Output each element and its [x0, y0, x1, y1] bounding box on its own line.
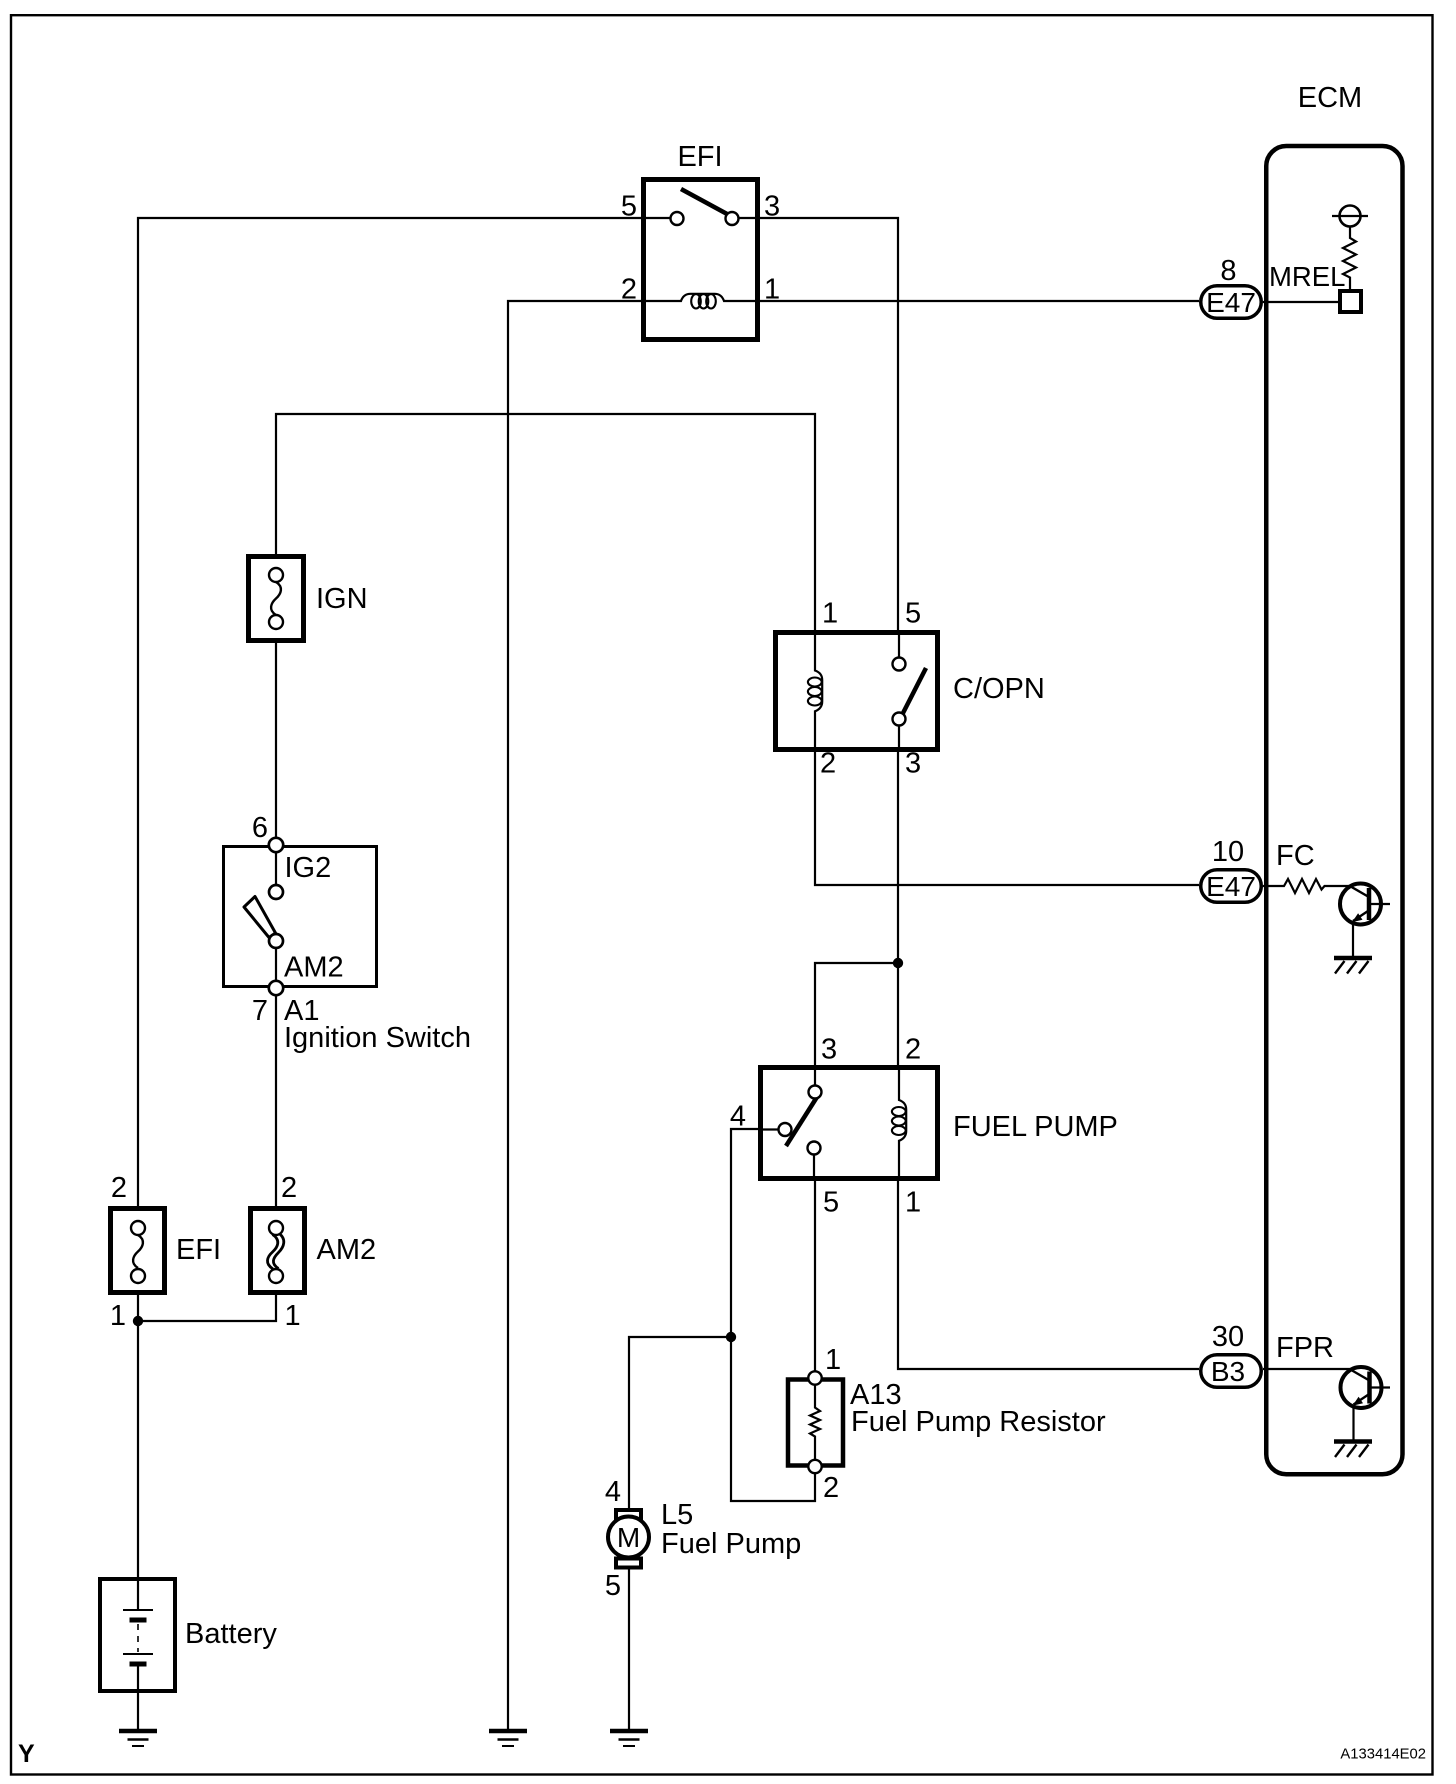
svg-text:EFI: EFI: [176, 1234, 221, 1266]
relay C/OPN switch: [898, 630, 900, 752]
svg-text:4: 4: [605, 1476, 621, 1508]
wire: EFI fuse pin2 to EFI relay pin 5: [138, 218, 644, 1206]
relay FUEL PUMP switch: [758, 1065, 815, 1181]
svg-text:1: 1: [825, 1344, 841, 1376]
svg-text:L5: L5: [661, 1499, 693, 1531]
svg-text:1: 1: [764, 274, 780, 306]
svg-text:7: 7: [252, 995, 268, 1027]
svg-text:Ignition Switch: Ignition Switch: [284, 1022, 471, 1054]
MREL terminal square: [1340, 291, 1361, 312]
svg-text:IGN: IGN: [316, 583, 368, 615]
relay EFI coil: [646, 294, 756, 301]
ignition switch AM2 contact: [269, 934, 283, 948]
svg-text:A133414E02: A133414E02: [1340, 1747, 1426, 1763]
FPR driver transistor: [1341, 1367, 1391, 1440]
wire: IGN fuse bottom to ignition switch pin 6: [275, 643, 277, 838]
wire: E47-8 to MREL terminal square: [1263, 206, 1368, 313]
svg-text:30: 30: [1212, 1321, 1244, 1353]
junction node at fuel pump branch: [726, 1332, 736, 1342]
fusible link AM2 box: [251, 1172, 377, 1332]
svg-text:5: 5: [621, 191, 637, 223]
svg-text:2: 2: [905, 1034, 921, 1066]
wire: battery negative to ground: [137, 1693, 139, 1730]
svg-text:C/OPN: C/OPN: [953, 673, 1045, 705]
svg-text:5: 5: [905, 598, 921, 630]
svg-text:AM2: AM2: [284, 952, 344, 984]
ignition switch box: [224, 812, 472, 1054]
svg-text:2: 2: [820, 748, 836, 780]
svg-text:5: 5: [823, 1187, 839, 1219]
wire: branch junction to FUEL PUMP relay pin 3: [815, 963, 898, 1065]
svg-text:2: 2: [111, 1172, 127, 1204]
svg-text:3: 3: [764, 191, 780, 223]
svg-text:E47: E47: [1206, 287, 1256, 318]
svg-text:1: 1: [285, 1300, 301, 1332]
wire: FUEL PUMP relay pin 5 to resistor A13 pin 1: [814, 1181, 816, 1371]
relay EFI switch contacts: [646, 217, 756, 219]
wire: C/OPN relay pin 2 to ECM E47-10 FC: [815, 752, 1199, 885]
fuse IGN box: [249, 557, 368, 641]
svg-text:M: M: [617, 1522, 640, 1553]
ECM box: [1266, 82, 1402, 1474]
fuel pump resistor A13 box: [788, 1344, 1106, 1504]
ignition switch lever: [244, 897, 276, 938]
junction node at EFI/AM2 fuses: [133, 1316, 143, 1326]
ignition switch pin 7 contact: [275, 948, 277, 981]
svg-text:Y: Y: [18, 1740, 35, 1768]
wire: ignition switch pin 7 to AM2 fuse pin 2: [275, 995, 277, 1206]
FPR transistor ground: [1334, 1442, 1372, 1458]
svg-text:4: 4: [730, 1101, 746, 1133]
svg-text:5: 5: [605, 1570, 621, 1602]
wire: FUEL PUMP relay pin 1 to ECM B3-30 FPR: [898, 1181, 1199, 1369]
FC driver transistor: [1340, 884, 1390, 957]
connector E47 oval (MREL): [1201, 255, 1346, 318]
ground below battery: [119, 1731, 157, 1746]
svg-text:AM2: AM2: [317, 1234, 377, 1266]
MREL power source symbol: [1340, 206, 1361, 227]
svg-text:6: 6: [252, 812, 268, 844]
svg-text:MREL: MREL: [1269, 261, 1345, 292]
svg-text:3: 3: [821, 1034, 837, 1066]
svg-text:1: 1: [110, 1300, 126, 1332]
connector B3 oval (FPR): [1201, 1321, 1334, 1387]
battery cells: [137, 1577, 139, 1610]
svg-text:Fuel Pump: Fuel Pump: [661, 1528, 801, 1560]
FC base resistor: [1263, 879, 1351, 893]
ground from EFI relay pin 2: [489, 1731, 527, 1746]
FC transistor ground: [1334, 958, 1372, 974]
svg-text:8: 8: [1220, 255, 1236, 287]
relay C/OPN box: [776, 598, 1045, 780]
svg-text:ECM: ECM: [1298, 82, 1362, 114]
svg-text:Fuel Pump Resistor: Fuel Pump Resistor: [851, 1406, 1106, 1438]
ground below fuel pump motor: [610, 1731, 648, 1746]
MREL pull-up resistor: [1343, 227, 1356, 290]
svg-text:IG2: IG2: [285, 852, 332, 884]
ignition switch pin 6 contact: [275, 852, 277, 885]
wire: IGN fuse pin top to C/OPN relay pin 1: [276, 414, 815, 630]
svg-text:FPR: FPR: [1276, 1332, 1334, 1364]
wire: EFI fuse pin 1 to battery, junction to AM2 fuse pin 1: [138, 1295, 276, 1577]
svg-text:3: 3: [905, 748, 921, 780]
wire: junction to fuel pump motor pin 4: [629, 1337, 731, 1510]
svg-text:EFI: EFI: [677, 141, 722, 173]
svg-text:1: 1: [905, 1187, 921, 1219]
relay FUEL PUMP box: [730, 1034, 1118, 1219]
svg-text:2: 2: [621, 274, 637, 306]
svg-text:10: 10: [1212, 836, 1244, 868]
svg-text:FUEL PUMP: FUEL PUMP: [953, 1111, 1118, 1143]
relay C/OPN coil: [815, 630, 822, 752]
connector E47 oval (FC): [1201, 836, 1315, 902]
fusible link AM2 element: [275, 1221, 277, 1283]
wire: EFI relay pin 1 to ECM E47-8 MREL: [758, 300, 1199, 302]
wire: FUEL PUMP relay pin 4 down to resistor pin 2: [731, 1129, 815, 1501]
svg-text:B3: B3: [1211, 1356, 1245, 1387]
svg-text:E47: E47: [1206, 871, 1256, 902]
svg-text:2: 2: [823, 1472, 839, 1504]
fuel pump motor L5 symbol: [605, 1476, 801, 1602]
svg-text:1: 1: [822, 598, 838, 630]
svg-text:2: 2: [281, 1172, 297, 1204]
relay EFI box: [621, 141, 780, 340]
wire: C/OPN relay pin 3 to FUEL PUMP relay pin 2: [897, 752, 899, 1065]
wire: EFI relay pin 3 to C/OPN relay pin 5: [758, 218, 898, 630]
fuse EFI element: [137, 1221, 139, 1283]
junction node at C/OPN pin3 branch: [893, 958, 903, 968]
svg-text:FC: FC: [1276, 840, 1315, 872]
svg-text:Battery: Battery: [185, 1618, 277, 1650]
ignition switch IG2 contact: [269, 885, 283, 899]
wire: fuel pump motor pin 5 to ground: [628, 1569, 630, 1730]
wire: EFI relay pin 2 to ground: [508, 301, 644, 1730]
battery box: [100, 1577, 277, 1693]
relay FUEL PUMP coil: [899, 1065, 906, 1181]
fuse IGN element: [275, 568, 277, 629]
fuse EFI box: [110, 1172, 221, 1332]
wire: B3-30 to FPR transistor: [1263, 1368, 1351, 1370]
